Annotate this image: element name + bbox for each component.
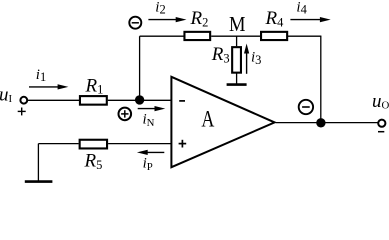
arrow i4: [290, 19, 322, 21]
ground bottom left: [25, 180, 53, 183]
op-amp noninverting input plus mark: [179, 143, 187, 145]
resistor R4: [261, 32, 287, 40]
wire R1 to op-amp inverting input: [108, 99, 172, 101]
wire output: [276, 122, 378, 124]
op-amp inverting input minus mark: [179, 100, 185, 102]
polarity circle minus at output: [299, 100, 313, 114]
resistor R2: [184, 32, 210, 40]
node N junction dot: [135, 95, 144, 104]
input terminal u_I: [20, 97, 27, 104]
minus polarity under output: [378, 131, 384, 133]
node output junction dot: [316, 118, 325, 127]
resistor R1: [80, 96, 107, 105]
wire node N vertical up: [139, 36, 141, 100]
svg-text:i1: i1: [36, 67, 46, 84]
svg-text:i3: i3: [251, 49, 261, 67]
wire right vertical down to output: [320, 36, 322, 122]
wire ground drop left: [37, 144, 39, 182]
resistor R5: [80, 140, 107, 149]
wire left to R5: [38, 143, 78, 145]
wire R2 to R4: [211, 35, 260, 37]
arrow i2: [148, 19, 178, 21]
svg-text:i4: i4: [296, 0, 307, 17]
resistor R3: [232, 47, 241, 73]
svg-text:M: M: [229, 12, 246, 36]
arrow iN: [138, 108, 157, 110]
wire R4 to right corner: [288, 35, 321, 37]
wire input u_I to R1: [28, 99, 79, 101]
arrow i3: [246, 52, 248, 74]
svg-text:i2: i2: [155, 0, 165, 17]
arrow i1: [29, 86, 60, 88]
polarity circle plus at node N: [119, 108, 132, 121]
ground under R3: [227, 83, 247, 86]
plus polarity under input: [18, 110, 26, 112]
wire R3 to ground: [236, 74, 238, 85]
arrow iP: [146, 151, 165, 153]
wire R5 to op-amp noninverting input: [108, 143, 171, 145]
wire M stub to R3: [236, 36, 238, 46]
wire top left to R2: [140, 35, 184, 37]
output terminal u_O: [378, 120, 385, 127]
polarity circle minus top-left: [129, 17, 141, 29]
svg-text:A: A: [201, 107, 214, 132]
op-amp A triangle: [171, 77, 274, 167]
